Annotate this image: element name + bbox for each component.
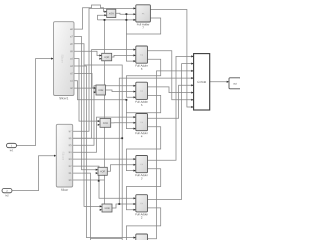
junction [126,13,128,15]
output display block [229,78,241,89]
port arrow [134,60,136,62]
wire [74,44,102,207]
wire [74,73,96,88]
wire [148,85,194,118]
port arrow [104,11,106,13]
wire [73,8,136,131]
port arrow [134,7,136,9]
port arrow [100,205,102,207]
subsystem Full Adder 1 [136,234,148,240]
junction [104,19,106,21]
port arrow [134,85,136,87]
port arrow [96,172,98,174]
port arrow [227,81,229,83]
port arrow [134,209,136,211]
wire [73,50,136,139]
wire [126,18,160,61]
subsystem Full Adder 6 [136,46,148,70]
port arrow [191,106,193,108]
port arrow [191,84,193,86]
port arrow [134,116,136,118]
subsystem Full Adder 4 [136,114,148,138]
junction [126,99,128,101]
port arrow [134,197,136,199]
wire [102,209,105,211]
wire [73,86,136,145]
port arrow [134,203,136,205]
slicer block Slicer1 [54,22,75,100]
port arrow [98,124,100,126]
port arrow [134,237,136,239]
wire [148,64,194,200]
logical operator XOR 4 [100,119,111,128]
wire [73,137,123,139]
inport 2 [2,188,12,196]
slicer block Slicer [56,124,72,191]
wire [74,5,107,29]
wire [106,90,136,92]
wire [150,10,193,108]
wire [74,37,98,170]
port arrow [104,14,106,16]
wire [17,59,54,146]
wire [91,238,123,240]
port arrow [134,158,136,160]
port arrow [134,122,136,124]
port arrow [134,91,136,93]
concat block [194,54,210,110]
subsystem Full Adder 3 [136,156,148,180]
port arrow [191,55,193,57]
wire [73,117,136,152]
junction [126,19,128,21]
subsystem Full Adder 7 [136,5,151,29]
logical operator XOR 1 [107,9,116,17]
port arrow [134,128,136,130]
wire [126,127,160,171]
wire [126,95,160,128]
port arrow [94,91,96,93]
wire [148,87,194,93]
wire [74,51,102,55]
wire [74,88,96,92]
wire [97,173,100,181]
wire [73,173,91,240]
wire [116,12,136,15]
wire [98,15,107,20]
wire [73,158,136,160]
port arrow [94,87,96,89]
wire [98,19,136,21]
subsystem Full Adder 2 [136,195,148,219]
port arrow [99,58,101,60]
logical operator XOR 3 [96,85,106,95]
wire [125,14,127,34]
port arrow [191,70,193,72]
port arrow [134,164,136,166]
port arrow [51,58,53,60]
wire [148,51,194,100]
wire [210,81,229,83]
port arrow [98,120,100,122]
wire [100,124,105,126]
wire [112,204,136,208]
wire [73,179,105,181]
logical operator XOR 6 [102,204,112,212]
junction [104,58,106,60]
port arrow [134,19,136,21]
port arrow [191,92,193,94]
port arrow [134,49,136,51]
inport 1 [7,143,17,151]
wire [126,169,160,210]
wire [74,59,100,122]
port arrow [134,96,136,98]
wire [148,71,194,239]
wire [111,122,136,124]
junction [118,203,120,205]
port arrow [134,13,136,15]
port arrow [191,63,193,65]
wire [148,56,194,160]
port arrow [99,54,101,56]
junction [98,180,100,182]
port arrow [100,209,102,211]
port arrow [134,54,136,56]
wire [73,166,136,198]
wire [84,65,122,240]
junction [121,137,123,139]
wire [74,81,126,113]
wire [126,59,160,97]
wire [119,78,193,204]
wire [104,20,106,210]
port arrow [96,169,98,171]
wire [13,156,57,191]
wire [107,165,136,172]
wire [74,66,136,238]
wire [102,58,105,60]
junction [104,124,106,126]
wire [126,208,160,240]
logical operator XOR 5 [98,167,107,175]
port arrow [134,170,136,172]
port arrow [54,155,56,157]
port arrow [191,99,193,101]
wire [112,55,136,57]
port arrow [191,77,193,79]
subsystem Full Adder 5 [136,82,148,106]
logical operator XOR 2 [102,53,112,61]
